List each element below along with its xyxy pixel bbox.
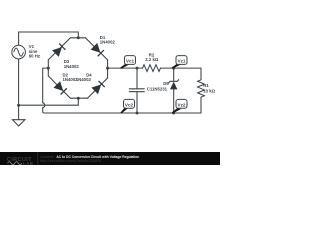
svg-text:http://circuitlab.com/c7eab4e3: http://circuitlab.com/c7eab4e325835 bbox=[40, 159, 101, 163]
junction: bridge right DC+ node bbox=[106, 67, 109, 70]
junction: bridge top node bbox=[77, 36, 80, 39]
wire: bridge left vertical bbox=[47, 60, 49, 76]
wire: bridge bottom edge bbox=[70, 97, 87, 99]
zener diode D5 triangle bbox=[170, 82, 177, 90]
wire: bridge left (DC-) vertex left then down, hopping over V1- wire bbox=[43, 68, 49, 103]
junction: D5 bottom tap bbox=[172, 112, 175, 115]
svg-text:60 Hz: 60 Hz bbox=[29, 54, 40, 59]
wire: V1- horizontal to bridge bottom node bbox=[19, 98, 79, 105]
diode D1 bbox=[91, 43, 104, 56]
svg-text:D5: D5 bbox=[163, 81, 169, 86]
svg-text:10 kΩ: 10 kΩ bbox=[203, 88, 215, 93]
wire: top rail from V1+ up and right to bridge top node bbox=[19, 32, 79, 45]
junction: V1- ground node bbox=[17, 104, 20, 107]
diode D4 bbox=[91, 81, 104, 94]
wire: V1 bottom lead down to V1- node bbox=[18, 59, 20, 105]
ground bbox=[18, 105, 20, 119]
diode D2 bbox=[54, 81, 67, 94]
svg-text:Vz1: Vz1 bbox=[178, 59, 186, 64]
svg-text:1N4002: 1N4002 bbox=[100, 40, 116, 45]
svg-text:LAB: LAB bbox=[23, 161, 34, 165]
junction: D5 top tap bbox=[172, 67, 175, 70]
wire: D5 bottom lead bbox=[173, 89, 175, 113]
junction: C1 top tap bbox=[136, 67, 139, 70]
svg-text:C1: C1 bbox=[147, 87, 153, 92]
zener diode D5 cathode bar with wings bbox=[169, 80, 179, 83]
node flag Vc1 bbox=[121, 56, 136, 69]
wire: bridge right vertical bbox=[107, 60, 109, 78]
junction: C1 bottom tap bbox=[136, 112, 139, 115]
wire: bridge SE edge (D4 body wire) bbox=[88, 78, 108, 98]
node flag Vc2 bbox=[121, 99, 135, 113]
wire: bridge NE edge (D1 body wire) bbox=[85, 38, 107, 60]
diode D3 bbox=[52, 44, 65, 57]
caption bar bbox=[0, 152, 220, 165]
wire: DC+ rail from R2 to top-right corner bbox=[161, 67, 202, 69]
voltage source V1 bbox=[12, 45, 26, 59]
wire: C1 top lead bbox=[136, 68, 138, 88]
resistor R1 bbox=[198, 80, 205, 97]
wire: bridge SW edge (D2 body wire) bbox=[48, 76, 70, 98]
wire: curve into bottom DC- rail bbox=[43, 108, 45, 113]
wire: bridge top edge bbox=[70, 37, 85, 39]
svg-text:1N4002: 1N4002 bbox=[64, 64, 80, 69]
svg-text:1N5231: 1N5231 bbox=[152, 87, 168, 92]
wire: D5 top lead bbox=[173, 68, 175, 81]
CircuitLab logo bbox=[7, 157, 34, 166]
node flag Vz1 bbox=[172, 56, 187, 69]
junction: bridge bottom node bbox=[77, 97, 80, 100]
resistor R2 bbox=[143, 65, 161, 72]
wire: DC+ rail from bridge right vertex to R2 bbox=[108, 67, 143, 69]
svg-text:Vc1: Vc1 bbox=[126, 59, 135, 64]
wire: right rail below R1 to bottom rail bbox=[200, 97, 202, 113]
wire: C1 bottom lead bbox=[136, 92, 138, 113]
caption divider bbox=[37, 153, 39, 165]
wire hop over V1- wire bbox=[43, 103, 45, 108]
svg-text:2.2 kΩ: 2.2 kΩ bbox=[145, 57, 159, 62]
svg-text:Vc2: Vc2 bbox=[125, 102, 134, 107]
svg-text:1N4002: 1N4002 bbox=[76, 77, 92, 82]
svg-text:Vz2: Vz2 bbox=[178, 102, 186, 107]
wire: bridge NW edge (D3 body wire) bbox=[48, 38, 70, 60]
wire: right rail down to R1 bbox=[200, 68, 202, 80]
junction: bridge left DC- node bbox=[47, 67, 50, 70]
wire: bottom DC- rail bbox=[45, 112, 202, 114]
capacitor C1 bbox=[129, 88, 144, 90]
node flag Vz2 bbox=[172, 99, 187, 113]
